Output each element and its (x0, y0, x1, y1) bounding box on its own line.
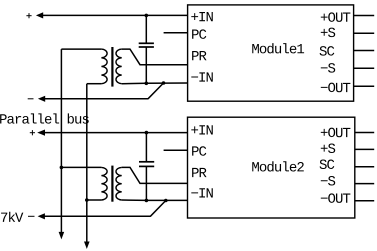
wire capacitor C2 top lead (145, 133, 147, 162)
junction dot bus A/T2 primary top (60, 166, 64, 170)
svg-text:+S: +S (320, 26, 336, 42)
wire T1 primary bottom (87, 83, 102, 85)
junction dot +bus1/C1 (145, 14, 149, 18)
wire T1 secondary top to PR1 (122, 49, 188, 65)
wire -IN2 (122, 199, 188, 201)
wire -IN1 (122, 82, 188, 85)
svg-text:+IN: +IN (191, 10, 214, 26)
wire +S2 stub (355, 148, 374, 150)
transformer T1 primary winding (101, 49, 107, 84)
svg-text:−S: −S (320, 61, 336, 77)
wire +OUT2 stub (355, 132, 374, 134)
wire -S2 stub (355, 183, 374, 185)
junction dot +bus2/C2 (145, 131, 149, 135)
wire +bus2 (43, 132, 188, 134)
arrow bus A down (59, 232, 65, 240)
svg-text:PC: PC (191, 145, 207, 161)
wire capacitor C2 bottom lead (145, 166, 147, 200)
junction dot diagonal/-IN2 (164, 199, 168, 203)
wire capacitor C1 bottom lead (145, 47, 147, 83)
svg-text:Module2: Module2 (251, 160, 304, 176)
svg-text:−IN: −IN (190, 187, 213, 203)
svg-text:+S: +S (320, 142, 336, 158)
module U1 box (188, 5, 354, 101)
junction dot C1/-IN1 (145, 82, 149, 86)
svg-text:Module1: Module1 (251, 42, 304, 58)
svg-text:Parallel bus: Parallel bus (0, 113, 90, 129)
capacitor C2 plates (139, 161, 154, 163)
wire -S1 stub (354, 67, 375, 69)
wire -OUT1 stub (354, 85, 375, 87)
svg-text:−IN: −IN (191, 71, 214, 87)
wire SC2 stub (355, 166, 374, 168)
wire parallel bus B vertical (86, 84, 88, 243)
svg-text:+OUT: +OUT (320, 11, 351, 27)
wire +bus1 (42, 14, 188, 16)
arrow bus B down (84, 242, 90, 250)
svg-text:PR: PR (191, 49, 208, 65)
capacitor C1 plates (139, 42, 154, 44)
svg-text:−OUT: −OUT (320, 192, 351, 208)
svg-text:+IN: +IN (190, 124, 213, 140)
label + polarity bus2 (30, 132, 35, 134)
transformer T1 core (111, 47, 113, 87)
wire T1 primary top (61, 48, 101, 50)
arrow +bus1 left (36, 12, 43, 18)
module U2 box (188, 117, 355, 218)
arrow 7kV bus left (38, 213, 45, 219)
svg-text:+OUT: +OUT (320, 126, 351, 142)
svg-text:PR: PR (191, 166, 208, 182)
svg-text:SC: SC (319, 158, 335, 174)
wire parallel bus A vertical (60, 49, 62, 233)
wire diagonal to 7kV bus (151, 201, 166, 217)
svg-text:7kV: 7kV (0, 211, 24, 227)
wire T2 secondary top to PR2 (122, 167, 188, 183)
wire diagonal to -bus1 (148, 83, 164, 99)
label - polarity bus1 (28, 98, 34, 100)
junction dot C2/-IN2 (145, 199, 149, 203)
transformer T1 secondary winding (116, 49, 122, 84)
label + polarity top bus (26, 15, 31, 17)
wire -OUT2 stub (355, 200, 374, 202)
svg-text:SC: SC (319, 44, 335, 60)
wire +OUT1 stub (354, 15, 375, 17)
wire -bus1 (44, 98, 148, 100)
wire SC1 stub (354, 50, 375, 52)
wire +S1 stub (354, 32, 375, 34)
arrow -bus1 left (38, 96, 45, 102)
junction dot bus B/T2 primary bottom (85, 198, 89, 202)
junction dot diagonal/-IN1 (162, 81, 166, 85)
wire 7kV bus (44, 215, 151, 217)
wire PC1 stub (164, 32, 188, 34)
wire T2 primary bottom (87, 199, 102, 201)
svg-text:−S: −S (320, 174, 336, 190)
label - polarity 7kV (28, 215, 35, 217)
svg-text:PC: PC (191, 28, 207, 44)
svg-text:−OUT: −OUT (320, 81, 351, 97)
wire T2 primary top (61, 166, 101, 168)
wire capacitor C1 top lead (145, 15, 147, 43)
arrow +bus2 left (37, 130, 45, 136)
wire PC2 stub (164, 149, 188, 151)
transformer T2 core (111, 166, 113, 202)
transformer T2 primary winding (101, 167, 107, 200)
transformer T2 secondary winding (116, 167, 122, 200)
